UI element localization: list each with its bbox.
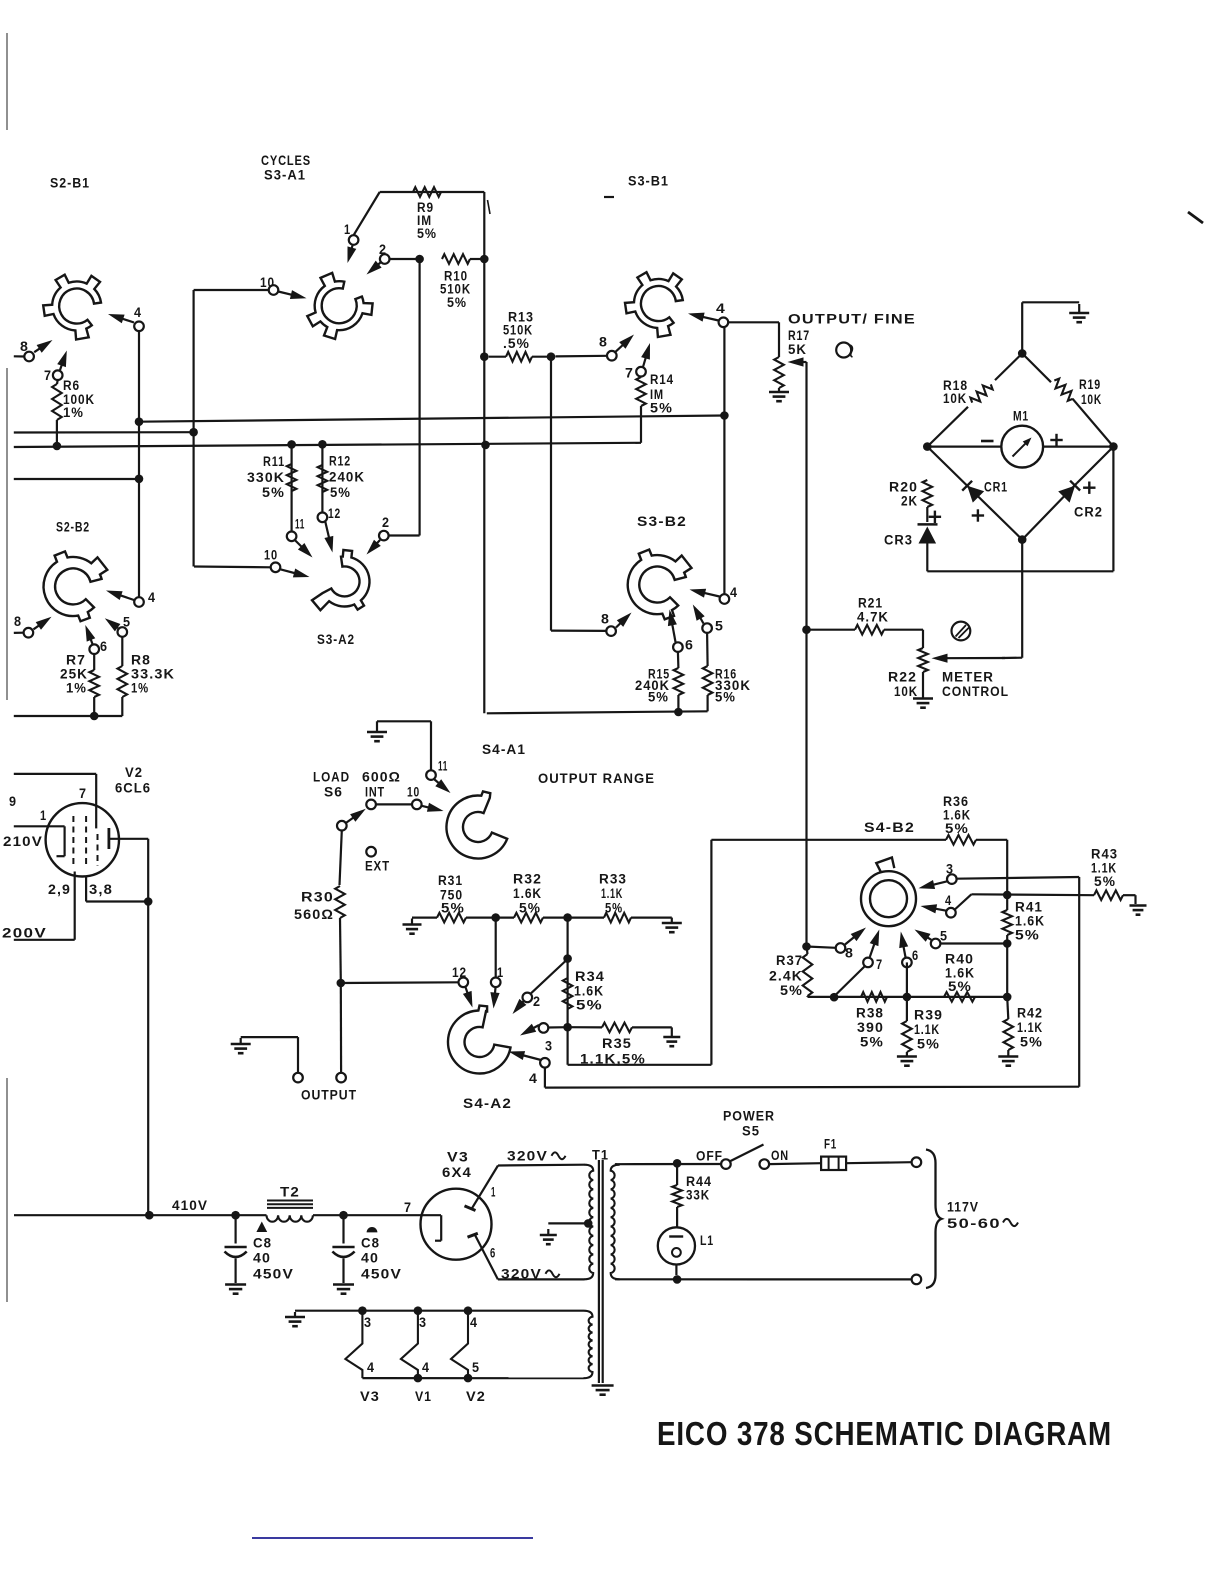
svg-text:CONTROL: CONTROL xyxy=(942,684,1009,700)
svg-text:11: 11 xyxy=(438,759,448,775)
svg-text:4: 4 xyxy=(148,590,156,606)
svg-text:5%: 5% xyxy=(605,901,623,917)
svg-text:450V: 450V xyxy=(253,1267,294,1283)
svg-text:5%: 5% xyxy=(262,485,285,501)
svg-text:210V: 210V xyxy=(3,834,43,850)
svg-text:10K: 10K xyxy=(1081,392,1102,408)
svg-text:7: 7 xyxy=(404,1200,412,1216)
svg-text:50-60: 50-60 xyxy=(947,1216,1001,1232)
svg-text:5%: 5% xyxy=(948,979,972,995)
svg-text:EXT: EXT xyxy=(365,859,390,875)
svg-text:4: 4 xyxy=(730,585,738,601)
svg-text:8: 8 xyxy=(845,946,854,962)
svg-text:S4-A1: S4-A1 xyxy=(482,742,526,758)
svg-text:M1: M1 xyxy=(1013,409,1029,425)
svg-text:10: 10 xyxy=(264,548,278,564)
svg-text:6CL6: 6CL6 xyxy=(115,781,151,797)
svg-text:4: 4 xyxy=(470,1315,478,1331)
svg-text:R14: R14 xyxy=(650,372,674,388)
svg-text:OUTPUT/ FINE: OUTPUT/ FINE xyxy=(788,312,916,328)
svg-text:6X4: 6X4 xyxy=(442,1165,472,1181)
svg-text:117V: 117V xyxy=(947,1200,979,1216)
svg-text:8: 8 xyxy=(599,335,608,351)
svg-text:3,8: 3,8 xyxy=(89,882,113,898)
svg-text:OFF: OFF xyxy=(696,1149,723,1165)
svg-text:1%: 1% xyxy=(66,681,87,697)
svg-text:8: 8 xyxy=(601,612,610,628)
svg-text:EICO 378 SCHEMATIC DIAGRAM: EICO 378 SCHEMATIC DIAGRAM xyxy=(657,1415,1112,1452)
svg-text:10: 10 xyxy=(260,275,275,291)
svg-text:3: 3 xyxy=(419,1315,427,1331)
svg-text:7: 7 xyxy=(79,786,87,802)
svg-text:40: 40 xyxy=(361,1251,379,1267)
svg-text:8: 8 xyxy=(20,339,29,355)
svg-text:OUTPUT: OUTPUT xyxy=(301,1088,357,1104)
svg-text:4: 4 xyxy=(367,1360,375,1376)
svg-text:S3-A1: S3-A1 xyxy=(264,168,306,184)
svg-text:240K: 240K xyxy=(329,470,365,486)
svg-text:5%: 5% xyxy=(780,983,803,999)
svg-text:3: 3 xyxy=(364,1315,372,1331)
svg-text:5%: 5% xyxy=(650,401,673,417)
svg-text:4: 4 xyxy=(134,305,142,321)
svg-text:C8: C8 xyxy=(253,1236,272,1252)
svg-text:5%: 5% xyxy=(330,485,351,501)
svg-text:1: 1 xyxy=(491,1185,496,1201)
svg-text:5: 5 xyxy=(940,929,948,945)
svg-text:12: 12 xyxy=(328,506,341,522)
svg-text:7: 7 xyxy=(44,368,52,384)
svg-text:5%: 5% xyxy=(519,901,541,917)
svg-text:R12: R12 xyxy=(329,454,351,470)
svg-text:410V: 410V xyxy=(172,1198,208,1214)
svg-text:S3-B2: S3-B2 xyxy=(637,514,687,530)
svg-text:C8: C8 xyxy=(361,1236,380,1252)
svg-text:S4-A2: S4-A2 xyxy=(463,1096,512,1112)
svg-text:V3: V3 xyxy=(360,1389,380,1405)
svg-text:R11: R11 xyxy=(263,454,285,470)
svg-text:T1: T1 xyxy=(592,1148,609,1164)
svg-text:4: 4 xyxy=(529,1071,538,1087)
svg-text:POWER: POWER xyxy=(723,1109,775,1125)
svg-text:600Ω: 600Ω xyxy=(362,770,401,786)
svg-text:10K: 10K xyxy=(943,391,967,407)
svg-text:200V: 200V xyxy=(2,926,47,942)
svg-text:3: 3 xyxy=(545,1039,553,1055)
svg-text:5: 5 xyxy=(715,619,724,635)
svg-text:S5: S5 xyxy=(742,1124,760,1140)
svg-text:R35: R35 xyxy=(602,1036,632,1052)
svg-text:V2: V2 xyxy=(466,1389,486,1405)
svg-text:V1: V1 xyxy=(415,1389,432,1405)
svg-text:R19: R19 xyxy=(1079,377,1101,393)
svg-text:4: 4 xyxy=(716,301,726,317)
svg-text:6: 6 xyxy=(685,638,694,654)
svg-text:1.1K,5%: 1.1K,5% xyxy=(580,1052,646,1068)
svg-text:2,9: 2,9 xyxy=(48,882,71,898)
svg-text:T2: T2 xyxy=(280,1185,300,1201)
svg-text:V2: V2 xyxy=(125,765,143,781)
svg-text:ON: ON xyxy=(771,1148,789,1164)
svg-text:S2-B2: S2-B2 xyxy=(56,520,90,536)
svg-text:F1: F1 xyxy=(824,1137,837,1153)
svg-text:33K: 33K xyxy=(686,1188,710,1204)
svg-text:S3-B1: S3-B1 xyxy=(628,174,669,190)
svg-text:1: 1 xyxy=(497,965,504,981)
svg-text:7: 7 xyxy=(625,366,634,382)
svg-text:6: 6 xyxy=(490,1246,496,1262)
svg-text:2K: 2K xyxy=(901,494,918,510)
svg-text:INT: INT xyxy=(365,785,385,801)
svg-text:5%: 5% xyxy=(441,901,465,917)
svg-text:320V: 320V xyxy=(507,1149,548,1165)
svg-text:S3-A2: S3-A2 xyxy=(317,632,355,648)
svg-text:450V: 450V xyxy=(361,1267,402,1283)
svg-text:5%: 5% xyxy=(417,226,437,242)
svg-text:6: 6 xyxy=(100,639,108,655)
svg-text:R30: R30 xyxy=(301,890,334,906)
svg-text:5: 5 xyxy=(123,615,131,631)
svg-text:5%: 5% xyxy=(447,295,467,311)
svg-text:11: 11 xyxy=(295,517,305,533)
svg-text:3: 3 xyxy=(946,862,954,878)
svg-text:1: 1 xyxy=(344,222,351,238)
svg-text:5%: 5% xyxy=(715,690,736,706)
svg-text:CR3: CR3 xyxy=(884,533,913,549)
svg-text:320V: 320V xyxy=(501,1267,542,1283)
svg-text:2: 2 xyxy=(382,515,390,531)
svg-text:V3: V3 xyxy=(447,1150,469,1166)
svg-text:1%: 1% xyxy=(63,405,84,421)
svg-text:1: 1 xyxy=(40,808,47,824)
svg-text:10K: 10K xyxy=(894,684,918,700)
svg-text:12: 12 xyxy=(452,965,467,981)
svg-text:40: 40 xyxy=(253,1251,271,1267)
svg-text:5K: 5K xyxy=(788,342,807,358)
svg-text:9: 9 xyxy=(9,794,17,810)
svg-text:5%: 5% xyxy=(860,1035,884,1051)
svg-text:4.7K: 4.7K xyxy=(857,610,889,626)
svg-text:5%: 5% xyxy=(1094,874,1116,890)
svg-text:2: 2 xyxy=(533,994,541,1010)
svg-text:2: 2 xyxy=(379,242,387,258)
svg-text:S6: S6 xyxy=(324,785,343,801)
svg-text:5%: 5% xyxy=(576,998,603,1014)
svg-text:330K: 330K xyxy=(247,470,285,486)
svg-text:LOAD: LOAD xyxy=(313,770,350,786)
svg-text:S2-B1: S2-B1 xyxy=(50,176,90,192)
svg-text:560Ω: 560Ω xyxy=(294,907,334,923)
svg-text:8: 8 xyxy=(14,614,22,630)
svg-text:1%: 1% xyxy=(131,681,149,697)
svg-text:OUTPUT RANGE: OUTPUT RANGE xyxy=(538,771,655,787)
svg-text:5%: 5% xyxy=(917,1037,940,1053)
svg-text:5%: 5% xyxy=(945,821,969,837)
svg-text:5%: 5% xyxy=(648,690,669,706)
svg-text:5%: 5% xyxy=(1020,1035,1043,1051)
svg-text:CR1: CR1 xyxy=(984,480,1008,496)
svg-text:10: 10 xyxy=(407,785,420,801)
svg-text:R37: R37 xyxy=(776,953,803,969)
svg-text:4: 4 xyxy=(945,893,952,909)
svg-text:.5%: .5% xyxy=(503,336,530,352)
svg-text:5%: 5% xyxy=(1015,928,1040,944)
svg-text:7: 7 xyxy=(876,957,883,973)
svg-text:5: 5 xyxy=(472,1360,480,1376)
svg-text:CR2: CR2 xyxy=(1074,505,1103,521)
svg-text:L1: L1 xyxy=(700,1233,714,1249)
svg-text:6: 6 xyxy=(912,948,919,964)
svg-text:4: 4 xyxy=(422,1360,430,1376)
svg-text:S4-B2: S4-B2 xyxy=(864,820,915,836)
